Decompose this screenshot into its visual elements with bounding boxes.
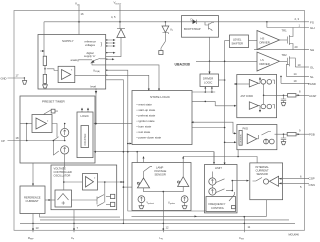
wire main low bus: [94, 151, 216, 165]
svg-text:STATE LOGIC: STATE LOGIC: [150, 95, 171, 99]
svg-text:analog: analog: [71, 58, 80, 62]
svg-text:LEVEL: LEVEL: [233, 37, 242, 41]
comparator bottom: [249, 102, 274, 110]
preset timer block: [20, 96, 95, 163]
svg-text:COUNTER: COUNTER: [84, 133, 87, 145]
supply block: [38, 35, 106, 90]
wire trunk to PKD: [225, 141, 236, 143]
wire level shifter in: [225, 40, 230, 42]
logic block: [77, 112, 93, 158]
wire LS driver in: [196, 60, 257, 62]
svg-text:BOOTSTRAP: BOOTSTRAP: [184, 27, 201, 31]
driver logic block: [200, 74, 219, 87]
pin LF2: [160, 216, 169, 240]
svg-text:19: 19: [294, 79, 297, 83]
svg-text:VDD(A): VDD(A): [93, 68, 100, 73]
svg-text:1: 1: [299, 23, 301, 27]
svg-text:CSP: CSP: [309, 177, 315, 181]
svg-text:HS: HS: [261, 36, 265, 40]
node FS to GH: [266, 21, 268, 23]
counter block: [81, 126, 89, 148]
current source limit 1: [209, 172, 225, 186]
svg-text:Vignition: Vignition: [168, 201, 175, 205]
capacitor at pkd node: [281, 134, 286, 145]
svg-text:• burn state: • burn state: [137, 125, 152, 129]
wire branch into lamp sensor: [136, 152, 138, 163]
wire tap to amp: [45, 66, 58, 75]
wire lamp sensor out row: [132, 215, 267, 217]
pin CP: [1, 123, 66, 143]
wire bottom bus 1: [40, 219, 289, 221]
svg-text:GND: GND: [1, 76, 7, 80]
peak detector block PKD: [237, 125, 277, 150]
current source I2: [53, 140, 69, 163]
wire anti-cross in left bottom: [215, 105, 235, 107]
svg-text:SUPPLY: SUPPLY: [62, 39, 74, 43]
svg-text:16: 16: [81, 12, 84, 16]
wire PKD to sensor feed: [237, 150, 239, 157]
wire supply to state logic 2: [106, 75, 149, 89]
wire trunk to state logic: [128, 143, 130, 145]
svg-text:PGND: PGND: [308, 82, 316, 86]
svg-text:• ignition state: • ignition state: [137, 119, 155, 123]
lamp voltage sensor block: [132, 163, 191, 211]
wire supply trunk down: [106, 80, 124, 224]
svg-text:11: 11: [248, 225, 251, 229]
svg-text:18: 18: [16, 136, 19, 140]
svg-text:RREF: RREF: [28, 236, 34, 241]
svg-text:DRIVER: DRIVER: [260, 40, 270, 44]
wire level shifter out: [249, 40, 258, 42]
pin GL: [295, 63, 314, 70]
wire preset amp in: [20, 123, 32, 125]
wire supply to state logic 1: [106, 65, 159, 89]
svg-text:reference: reference: [85, 40, 97, 44]
node divider tap: [44, 68, 46, 70]
svg-text:5: 5: [300, 185, 302, 189]
reference voltages outputs: [85, 39, 116, 47]
svg-text:• power-down state: • power-down state: [137, 136, 162, 140]
svg-text:LOGIC: LOGIC: [81, 114, 89, 118]
svg-text:9: 9: [299, 129, 301, 133]
svg-text:CONTROL: CONTROL: [211, 206, 225, 210]
svg-text:6: 6: [300, 174, 302, 178]
zener diode Z1: [162, 21, 174, 34]
resistor R1: [43, 56, 46, 65]
svg-text:4, 5: 4, 5: [111, 15, 116, 19]
limit block: [205, 165, 238, 213]
reference current block: [20, 186, 45, 214]
svg-text:FS: FS: [310, 20, 314, 24]
svg-text:• start-up state: • start-up state: [137, 108, 156, 112]
svg-text:8: 8: [299, 90, 301, 94]
pin CSW: [239, 216, 251, 241]
wire core out: [72, 197, 98, 205]
pin CA row: [264, 90, 317, 98]
diode DB: [193, 20, 197, 24]
svg-text:COUNTER: COUNTER: [240, 134, 242, 144]
top bus rail: [44, 21, 305, 23]
wire divider feed: [40, 22, 44, 56]
wire anti-cross out left top: [234, 83, 249, 85]
oscillator core: [55, 190, 72, 207]
pin GH: [267, 23, 315, 30]
svg-text:GL: GL: [310, 66, 314, 70]
transistor TR1: [280, 28, 294, 50]
wire vco output: [98, 181, 125, 183]
pin VBOOT: [111, 1, 122, 29]
svg-text:TR2: TR2: [282, 53, 288, 57]
switch preset top: [44, 109, 58, 115]
resistor R2: [43, 74, 46, 83]
ground (supply divider): [43, 83, 48, 88]
pin GND: [1, 73, 26, 80]
svg-text:PKD: PKD: [243, 127, 249, 131]
svg-text:Vpreheat: Vpreheat: [147, 201, 155, 205]
wire into limit top: [213, 152, 215, 163]
wire pkd out row / pin CRF: [275, 129, 315, 137]
svg-text:CSW: CSW: [239, 236, 244, 241]
svg-text:2: 2: [94, 178, 96, 180]
svg-text:CSN: CSN: [309, 183, 315, 187]
analog supply switch: [71, 54, 115, 65]
state logic block: [132, 91, 192, 145]
svg-text:SENSOR: SENSOR: [155, 173, 166, 177]
frequency control block: [206, 197, 236, 212]
pin PGND: [280, 76, 316, 86]
pin CSP: [279, 174, 315, 180]
wire reference corner: [40, 214, 120, 218]
svg-text:voltages: voltages: [85, 43, 96, 47]
op-amp HS driver: [257, 31, 280, 50]
svg-text:GH: GH: [310, 26, 315, 30]
op-amp lamp left: [137, 156, 149, 188]
svg-text:ANT COND: ANT COND: [241, 95, 254, 98]
pin CF: [71, 210, 79, 241]
svg-text:5: 5: [71, 70, 73, 72]
switch frequency: [229, 192, 235, 209]
svg-text:LOGIC: LOGIC: [204, 80, 212, 84]
wire into reference current: [32, 163, 34, 186]
wire lamp sensor U link: [144, 187, 184, 217]
op-amp U1 (supply regulator): [58, 66, 75, 82]
ground symbol (substrate): [23, 81, 27, 85]
svg-text:CURRENT: CURRENT: [256, 168, 269, 172]
svg-text:SL: SL: [310, 75, 314, 79]
svg-text:FREQUENCY: FREQUENCY: [209, 202, 226, 206]
svg-text:7: 7: [77, 226, 79, 230]
wire state logic to driver logic: [192, 87, 215, 93]
svg-text:2: 2: [47, 121, 49, 123]
svg-text:LAMP: LAMP: [156, 166, 164, 170]
svg-text:LIMIT: LIMIT: [215, 166, 222, 170]
current source I1: [52, 123, 69, 141]
op-amp lamp right: [178, 156, 189, 187]
svg-text:TR1: TR1: [282, 29, 288, 33]
transistor TR2: [280, 53, 296, 76]
switch pkd: [262, 132, 272, 136]
svg-text:• rest state: • rest state: [137, 130, 151, 134]
svg-text:SHIFTER: SHIFTER: [232, 41, 244, 45]
level shifter block: [230, 35, 249, 48]
op-amp preset: [32, 115, 52, 133]
level output: [91, 84, 98, 123]
svg-text:level: level: [91, 84, 97, 88]
svg-text:}: }: [101, 42, 103, 47]
svg-text:20: 20: [295, 45, 298, 49]
wire bottom bus 2: [20, 223, 295, 224]
wire bootstrap down: [209, 37, 211, 74]
comparator top: [249, 80, 274, 88]
anti cross conduction block: [237, 75, 277, 118]
wire lamp to internal sensor feed: [183, 157, 257, 163]
wire switched caps common: [104, 182, 106, 203]
wire logic up arrows: [81, 108, 89, 113]
switch sensor: [253, 178, 263, 182]
internal current sensor block: [250, 163, 283, 200]
comparator PKD: [247, 134, 257, 144]
pin SH: [254, 45, 314, 52]
svg-text:14: 14: [294, 72, 297, 76]
wire limit out to sensor: [226, 180, 249, 192]
wire regulator output: [75, 74, 106, 76]
wire driver logic to trunk: [219, 79, 225, 81]
svg-text:INTERNAL: INTERNAL: [256, 165, 270, 169]
wire trunk to lamp sensor input: [123, 186, 132, 188]
op-amp sensor: [270, 176, 279, 186]
svg-text:SENSOR: SENSOR: [257, 172, 268, 176]
svg-text:12: 12: [166, 225, 169, 229]
current source lamp right: [181, 196, 188, 209]
svg-text:ACAP: ACAP: [309, 94, 317, 98]
svg-text:MGU646: MGU646: [289, 232, 300, 236]
wire state logic to anti-cross: [192, 101, 215, 105]
transistor bootstrap: [205, 22, 214, 31]
switch S1 below zener: [159, 33, 166, 55]
svg-text:• preheat state: • preheat state: [137, 114, 156, 118]
svg-text:VBOOT: VBOOT: [114, 1, 122, 6]
svg-text:DRIVER: DRIVER: [203, 76, 213, 80]
svg-text:17: 17: [16, 73, 19, 77]
pin VDD: [75, 2, 84, 35]
wire vco core link: [63, 163, 66, 190]
svg-text:2, 3: 2, 3: [295, 17, 300, 21]
trunk vertical mid-right: [224, 41, 226, 165]
pin RREF: [28, 214, 39, 241]
switch-capacitor row 1: [97, 194, 115, 198]
wire state logic lower right: [192, 127, 225, 129]
svg-text:VOLTAGE: VOLTAGE: [154, 169, 167, 173]
pin SL: [286, 72, 314, 79]
svg-text:10: 10: [298, 63, 301, 67]
capacitor at CA node: [281, 95, 286, 106]
pin CSN: [279, 182, 315, 189]
svg-text:13: 13: [36, 226, 39, 230]
wire logic feedback: [95, 123, 133, 125]
current source limit 2: [209, 185, 225, 195]
svg-text:PGB: PGB: [309, 133, 315, 137]
svg-text:CONTROLLED: CONTROLLED: [54, 170, 72, 174]
op-amp vco: [83, 174, 98, 191]
current source sensor: [263, 179, 268, 184]
op-amp LS driver: [257, 52, 280, 71]
svg-text:OSCILLATOR: OSCILLATOR: [54, 174, 71, 178]
svg-text:CP: CP: [1, 139, 5, 143]
bootstrap block DB: [182, 16, 219, 38]
wire sensor down: [266, 200, 268, 217]
switch-capacitor row 2: [97, 202, 115, 206]
svg-text:LS: LS: [261, 58, 264, 62]
digital supply output: [87, 51, 116, 55]
wire supply trunk down 2: [106, 70, 206, 211]
svg-text:CF: CF: [71, 236, 75, 241]
svg-text:supply 'A': supply 'A': [84, 54, 96, 58]
switch lamp sensor: [144, 167, 153, 172]
svg-text:UBA2038: UBA2038: [175, 62, 190, 66]
pin FS: [295, 17, 314, 25]
svg-text:PRESET TIMER: PRESET TIMER: [42, 100, 66, 104]
vco block: [51, 165, 117, 210]
wire core to amp: [64, 181, 83, 183]
svg-text:VZ: VZ: [170, 27, 174, 32]
svg-text:REFERENCE: REFERENCE: [24, 195, 41, 199]
svg-text:• reset state: • reset state: [137, 103, 153, 107]
wire reference out to vco: [45, 199, 55, 201]
svg-text:DRIVER: DRIVER: [260, 62, 270, 66]
svg-text:CURRENT: CURRENT: [26, 199, 39, 203]
diode D1 bootstrap clamp: [106, 29, 125, 57]
svg-text:VDD: VDD: [75, 2, 80, 7]
current sources pkd: [264, 139, 275, 144]
svg-text:SH: SH: [310, 48, 314, 52]
svg-text:LF2: LF2: [160, 236, 164, 241]
current source lamp left: [138, 196, 145, 209]
wire comparators to output node: [258, 79, 260, 111]
wire state logic to PKD: [192, 122, 236, 133]
